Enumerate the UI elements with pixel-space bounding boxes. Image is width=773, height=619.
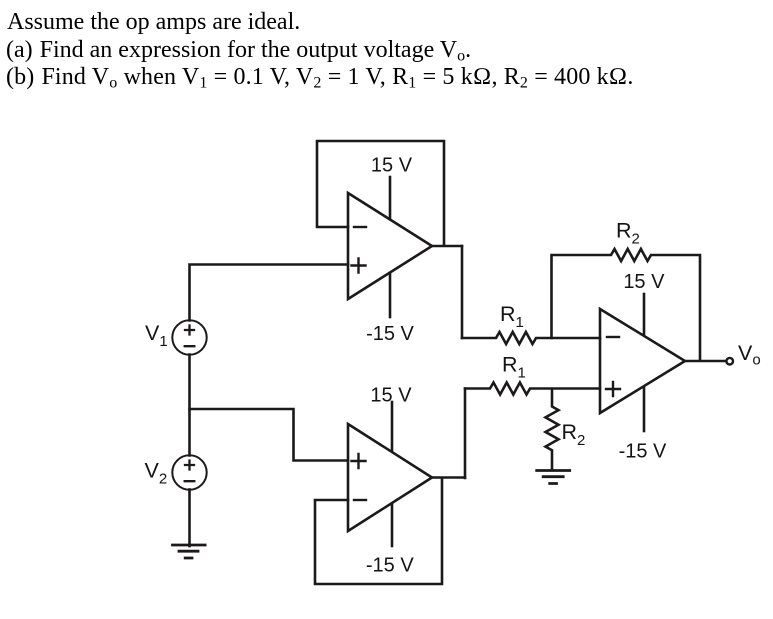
op-amp U2 -15V supply wire (391, 504, 394, 546)
wire V1 bottom to V2 top (188, 355, 191, 456)
svg-text:-15 V: -15 V (366, 554, 414, 576)
wire U1 output (432, 245, 462, 248)
svg-text:15 V: 15 V (371, 155, 413, 177)
op-amp U1 non-inverting input marker (+) (352, 259, 366, 273)
wire U1 output down to R1 (461, 246, 464, 338)
svg-text:R2: R2 (562, 420, 586, 449)
op-amp U3 inverting input marker (-) (607, 336, 619, 338)
op-amp U3 triangle (difference amplifier) (600, 309, 685, 413)
resistor R2 (feedback of U3) (552, 249, 701, 360)
resistor R1 (upper, to inverting input) (462, 332, 600, 344)
wire junction to U2 + input (190, 409, 349, 461)
wire U2 output (432, 476, 465, 479)
svg-text:Vo: Vo (738, 341, 761, 369)
node Vo open terminal (726, 358, 733, 365)
op-amp U2 triangle (bottom buffer) (348, 424, 432, 531)
svg-text:15 V: 15 V (623, 271, 665, 293)
op-amp U3 -15V supply wire (643, 387, 646, 431)
op-amp U2 inverting input marker (-) (354, 499, 366, 501)
voltage source V1 (172, 320, 206, 354)
wire U2 feedback loop (output to inverting input) (315, 478, 442, 584)
op-amp U1 +15V supply wire (389, 177, 392, 219)
voltage source V2 (172, 455, 206, 489)
resistor R1 (lower, to non-inverting input) (465, 383, 600, 395)
ground (below V2) (173, 545, 206, 558)
op-amp U3 non-inverting input marker (+) (606, 382, 620, 396)
svg-text:R2: R2 (616, 219, 640, 248)
wire V1 top to U1 + input (190, 265, 349, 321)
op-amp U2 +15V supply wire (391, 402, 394, 451)
wire U3 output to Vo terminal (685, 360, 726, 363)
op-amp U1 inverting input marker (-) (354, 226, 366, 228)
op-amp U1 triangle (top buffer) (348, 193, 432, 299)
op-amp U3 +15V supply wire (643, 294, 646, 335)
ground (below R2) (537, 471, 570, 484)
wire U1 feedback loop (output to inverting input) (317, 141, 444, 245)
wire V2 bottom to ground (188, 490, 191, 547)
svg-text:R1: R1 (500, 302, 524, 331)
svg-text:-15 V: -15 V (366, 323, 414, 345)
problem statement text (7, 10, 300, 34)
svg-text:-15 V: -15 V (619, 440, 667, 462)
op-amp U2 non-inverting input marker (+) (352, 454, 366, 468)
svg-text:15 V: 15 V (370, 385, 412, 407)
svg-text:V2: V2 (145, 459, 168, 488)
wire U2 output up to lower R1 (464, 389, 467, 479)
svg-text:R1: R1 (502, 353, 526, 382)
svg-text:V1: V1 (145, 321, 168, 350)
resistor R2 (to ground at U3 + input) (546, 389, 559, 470)
op-amp U1 -15V supply wire (389, 273, 392, 317)
